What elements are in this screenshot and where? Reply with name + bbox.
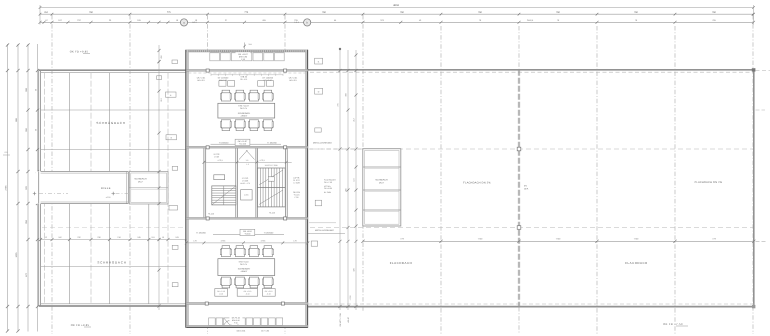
svg-text:2765: 2765 [4,185,7,191]
axis bubble left facade [180,19,196,26]
svg-text:DIELE: DIELE [101,187,111,190]
svg-text:GEF.: GEF. [524,187,529,190]
svg-text:GLASDACH: GLASDACH [134,178,146,181]
metal curtain note lower [308,223,345,234]
svg-text:4.73,5: 4.73,5 [259,159,264,162]
column markers on axis 7 [517,147,521,229]
svg-text:1.5: 1.5 [246,159,249,162]
sideboard west [215,289,228,297]
svg-text:OK FD +7.50: OK FD +7.50 [663,323,683,326]
atrium cut-out (Diele) [33,171,145,204]
dimension line across left wing [39,236,188,241]
svg-text:BRH 0.9: BRH 0.9 [197,79,204,82]
svg-text:OK +2.5: OK +2.5 [240,78,247,81]
svg-text:DN 2°: DN 2° [138,180,144,183]
left wing ridge line 2 (axis B solid part) [41,149,187,151]
vestibule text block [240,177,250,185]
stair west wall [256,148,258,219]
svg-text:TI 180/250: TI 180/250 [267,141,277,144]
east facade tag 1 [315,58,323,64]
store room [214,175,225,180]
level label south-west [196,231,206,234]
stair hall dimension line [203,159,292,164]
left wing ridge line 3 (south block) [41,266,187,268]
stair flight west [212,186,236,205]
svg-text:141.5: 141.5 [294,21,299,24]
door tag west facade 2 [169,206,178,211]
upper dining table [218,103,275,118]
horizontal grid axis B [310,148,753,150]
upper dining chairs south row [220,120,273,131]
stub lines beyond east facade [756,71,770,242]
svg-text:4.73,5: 4.73,5 [217,159,222,162]
stair hall north wall [186,146,307,149]
svg-text:OK +11.07: OK +11.07 [238,53,248,56]
column axis 3 at partition [206,69,209,72]
svg-text:2.055: 2.055 [244,193,249,196]
rooftop structure (skylight shaft) [363,149,401,226]
svg-text:OK FD +9.85: OK FD +9.85 [70,51,89,54]
svg-text:FLACHDACH: FLACHDACH [625,261,648,265]
central building floor slab [186,50,307,328]
sideboard east [262,289,275,297]
svg-text:4804: 4804 [393,4,399,7]
Flachdach label lower east [625,261,648,265]
svg-text:8A D=331: 8A D=331 [237,330,247,333]
left wing roof hatch (sloped roof seams) [70,73,149,304]
svg-text:METALLVORHANG: METALLVORHANG [313,141,332,144]
svg-text:178: 178 [293,239,296,242]
svg-text:OK FD +9.85: OK FD +9.85 [71,324,90,327]
upper dining chairs north row [220,90,273,101]
svg-text:FLACHDACH DN 2%: FLACHDACH DN 2% [695,181,723,184]
roof level note bottom right [663,323,688,326]
svg-text:178: 178 [193,239,196,242]
door tag west facade 2b [172,166,178,170]
lower dining chairs south row [220,277,273,288]
svg-text:SCHRÄGDACH: SCHRÄGDACH [97,261,126,265]
svg-text:1035: 1035 [15,252,18,258]
stair label east [265,164,278,167]
svg-text:OK +8.05: OK +8.05 [324,187,332,190]
central south wall [186,325,307,327]
fitting label cluster b [218,77,229,82]
svg-text:1.5: 1.5 [246,163,249,166]
vestibule lower box [241,190,253,200]
svg-text:ARBEIT: ARBEIT [241,115,249,118]
svg-text:13 STG 17.5/28: 13 STG 17.5/28 [265,164,278,167]
svg-text:FLACHDACH: FLACHDACH [390,261,413,265]
right wing east edge [753,70,755,307]
svg-text:-0.10: -0.10 [267,292,271,295]
svg-text:FLACHDACH DN 2%: FLACHDACH DN 2% [463,182,491,185]
landing level note [208,163,275,216]
right wing south edge [308,304,754,307]
svg-text:244: 244 [249,43,252,46]
loggia label cluster [236,52,251,61]
Schraegdach label south [97,261,126,265]
porch door swing [224,318,231,325]
svg-text:OK +7.50: OK +7.50 [324,181,332,184]
stair east wall [285,148,287,219]
right wing north edge [308,70,754,72]
svg-text:TI 180/250: TI 180/250 [219,141,229,144]
upper hall north partition [186,69,307,73]
lower dining table [218,259,275,276]
svg-text:3.955: 3.955 [221,239,226,242]
svg-text:+11.040: +11.040 [239,142,246,145]
door tag west facade [166,92,177,97]
south loggia table row [209,318,283,325]
axis bubble right facade [294,19,311,26]
svg-text:SCHRÄGDACH: SCHRÄGDACH [96,121,125,125]
east facade tag 3 [315,128,321,132]
svg-text:OK 0.74: OK 0.74 [240,107,247,110]
Schraegdach label north [96,121,125,125]
svg-text:DN 3°: DN 3° [379,181,385,184]
left dimension chain [3,43,39,332]
top dimension chain [39,4,756,24]
dimension line across right wing [361,238,755,243]
svg-text:3.955: 3.955 [261,239,266,242]
serving cabinets west pair [219,81,235,87]
east corridor text block 1 [293,177,300,185]
east corridor text block 2 [293,191,301,199]
svg-text:F 90: F 90 [241,58,245,61]
central east wall [305,50,307,328]
sideboard center [237,289,257,297]
west facade tag mid [166,135,177,140]
svg-text:BRH 0.9: BRH 0.9 [289,79,296,82]
svg-text:METALLVORHANG: METALLVORHANG [315,229,334,232]
lower dining chairs north row [220,246,273,257]
east facade tag 4 [315,200,321,206]
Flachdach label east field [695,181,723,184]
level label mid-east [267,141,277,144]
svg-text:-0.10: -0.10 [245,292,249,295]
svg-text:OK 0.74: OK 0.74 [240,263,247,266]
glass roof box (Glasdach) [129,172,168,205]
top survey tick [243,43,251,50]
metal curtain note upper [309,141,362,149]
svg-text:6%: 6% [524,185,527,188]
roof note block east of stair hall [324,179,336,194]
north loggia table row [210,53,284,61]
elevator shaft west wall [236,148,238,219]
svg-text:+5.445: +5.445 [269,212,275,215]
corner marker north-east [752,68,756,71]
svg-text:OK +4.80: OK +4.80 [261,329,269,332]
svg-text:17.5/28: 17.5/28 [293,181,299,184]
fitting label cluster d [262,77,273,82]
svg-text:+7.50: +7.50 [349,295,352,301]
svg-text:F 90: F 90 [234,321,238,324]
column axis 4 at partition [284,69,287,72]
middle vertical dimension chain [337,48,358,327]
door tag west facade 2d [172,283,178,287]
svg-text:+11.07: +11.07 [347,316,350,323]
south loggia label cluster [229,316,242,325]
svg-text:BL 2MM: BL 2MM [324,191,331,194]
left wing south edge [39,304,187,306]
marker west facade 3 [158,60,178,64]
south facade note [237,329,269,332]
fitting label cluster c [240,75,248,80]
svg-text:17/28: 17/28 [214,155,219,158]
expansion joint / maintenance walkway on axis 7 [518,70,529,307]
south hall dimension line [185,239,309,244]
Flachdach label west field [463,182,491,185]
svg-text:TI 180/250: TI 180/250 [196,231,206,234]
level callout box south [213,229,284,235]
east facade tag 5 [311,241,317,246]
svg-text:2448,5: 2448,5 [527,19,534,22]
svg-text:ARBEIT: ARBEIT [241,270,249,273]
main stair east (two flights) [258,168,286,207]
svg-text:+5.445: +5.445 [208,213,214,216]
roof level note bottom left [71,324,91,327]
level label south-east [264,231,274,234]
stair hall west corridor wall [204,148,206,219]
left wing north edge [39,70,187,73]
svg-text:+0.00: +0.00 [106,196,111,199]
svg-text:TI 180/250: TI 180/250 [264,231,274,234]
level label mid-west [219,141,229,144]
svg-text:142.5: 142.5 [192,21,197,24]
Flachdach label lower west [390,261,413,265]
left wing outer west wall [39,70,41,306]
east facade tag 2 [315,88,323,94]
left wing ridge line 1 [41,109,187,111]
corner marker south-east [752,305,755,308]
window mullions [211,74,283,76]
svg-text:+5.040: +5.040 [244,233,250,236]
door tag west facade 2c [172,245,178,249]
south loggia wall [186,302,307,305]
roof level note top left [70,51,90,54]
central north wall [186,50,307,52]
left wing internal dimension line [157,45,163,310]
stair hall south wall [186,217,307,220]
central west wall [186,50,189,328]
fitting label cluster a [197,77,206,82]
fitting label cluster e [289,77,298,82]
svg-text:LAUFL. 4.76: LAUFL. 4.76 [240,182,250,185]
svg-text:-0.10: -0.10 [219,292,223,295]
svg-text:GLASDACH: GLASDACH [375,179,387,182]
serving cabinets east pair [258,81,274,87]
horizontal grid axis C [42,227,753,229]
vestibule door swings [239,150,255,160]
svg-text:OK ATT +7.50: OK ATT +7.50 [339,313,342,327]
stair label west [214,153,220,158]
svg-text:F 90: F 90 [295,196,299,199]
level callout box mid [211,139,282,145]
